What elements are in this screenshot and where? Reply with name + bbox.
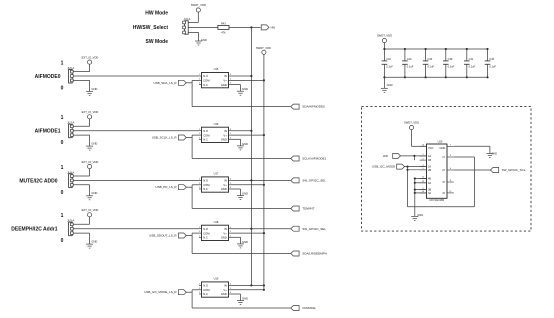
svg-text:SW_GP/I2C_SEL: SW_GP/I2C_SEL xyxy=(302,227,326,231)
svg-text:SW_GP/I2C_SCL: SW_GP/I2C_SCL xyxy=(502,168,526,172)
svg-text:GND: GND xyxy=(201,38,207,42)
svg-text:SWDT_VDD: SWDT_VDD xyxy=(191,3,206,7)
svg-text:4: 4 xyxy=(230,292,231,294)
svg-text:GND: GND xyxy=(221,236,227,240)
svg-text:14: 14 xyxy=(422,145,424,147)
svg-text:0: 0 xyxy=(61,190,64,196)
svg-text:TDM/INT: TDM/INT xyxy=(302,207,314,211)
svg-text:SCLK/AIFMODE1: SCLK/AIFMODE1 xyxy=(302,157,326,161)
svg-text:GND: GND xyxy=(91,240,97,244)
svg-text:C43: C43 xyxy=(407,57,412,61)
svg-text:USB_PD_LS_R: USB_PD_LS_R xyxy=(155,185,177,189)
svg-text:GND: GND xyxy=(221,187,227,191)
svg-text:N.O: N.O xyxy=(203,284,208,288)
svg-text:0.1uF: 0.1uF xyxy=(407,65,414,69)
svg-text:C40: C40 xyxy=(427,57,432,61)
svg-text:1: 1 xyxy=(61,61,64,67)
svg-text:V+: V+ xyxy=(223,231,227,235)
svg-text:SW_GP/I2C_SEL: SW_GP/I2C_SEL xyxy=(302,179,326,183)
svg-text:3: 3 xyxy=(199,288,200,290)
svg-text:R43: R43 xyxy=(221,21,226,25)
svg-text:V+: V+ xyxy=(223,288,227,292)
svg-text:4A: 4A xyxy=(428,182,431,185)
svg-text:COM: COM xyxy=(203,288,210,292)
svg-text:N.C: N.C xyxy=(203,138,208,142)
svg-text:11: 11 xyxy=(449,191,451,193)
svg-text:2: 2 xyxy=(199,74,200,76)
svg-text:USB_SDA_LS_R: USB_SDA_LS_R xyxy=(153,81,177,85)
svg-text:0.1uF: 0.1uF xyxy=(427,65,434,69)
svg-text:IN: IN xyxy=(224,284,227,288)
svg-text:GND: GND xyxy=(221,138,227,142)
svg-text:0.1uF: 0.1uF xyxy=(469,65,476,69)
svg-text:2B: 2B xyxy=(428,169,431,172)
svg-text:GND: GND xyxy=(242,240,248,244)
svg-text:0: 0 xyxy=(61,86,64,92)
svg-text:0.1uF: 0.1uF xyxy=(489,65,496,69)
svg-text:AIFMODE0: AIFMODE0 xyxy=(35,74,61,80)
svg-text:C39: C39 xyxy=(448,57,453,61)
svg-text:GND: GND xyxy=(221,83,227,87)
svg-text:SDA/AIFMODE0: SDA/AIFMODE0 xyxy=(302,105,325,109)
svg-text:C45: C45 xyxy=(489,57,494,61)
svg-text:V+: V+ xyxy=(223,79,227,83)
svg-text:3: 3 xyxy=(199,231,200,233)
svg-text:1: 1 xyxy=(61,165,64,171)
svg-text:3Y: 3Y xyxy=(442,181,445,184)
svg-text:V+: V+ xyxy=(223,183,227,187)
svg-text:HW: HW xyxy=(383,154,388,158)
svg-text:EXT_IO_VDD: EXT_IO_VDD xyxy=(82,110,99,114)
svg-text:GND: GND xyxy=(91,191,97,195)
svg-text:8: 8 xyxy=(450,180,451,182)
svg-text:6: 6 xyxy=(230,74,231,76)
svg-text:IN: IN xyxy=(224,74,227,78)
svg-text:2: 2 xyxy=(199,179,200,181)
svg-text:1: 1 xyxy=(199,187,200,189)
svg-text:N.O: N.O xyxy=(203,74,208,78)
svg-text:5: 5 xyxy=(230,231,231,233)
svg-text:N.C: N.C xyxy=(203,187,208,191)
svg-text:GND: GND xyxy=(492,152,498,155)
svg-text:4B: 4B xyxy=(428,178,431,181)
svg-text:1: 1 xyxy=(199,137,200,139)
svg-text:N.O: N.O xyxy=(203,179,208,183)
svg-text:1A: 1A xyxy=(428,155,431,158)
svg-text:CPMODE: CPMODE xyxy=(302,306,315,310)
svg-text:6: 6 xyxy=(230,179,231,181)
svg-text:6: 6 xyxy=(450,168,451,170)
svg-text:GND: GND xyxy=(91,142,97,146)
svg-text:COM: COM xyxy=(203,183,210,187)
svg-text:3: 3 xyxy=(199,133,200,135)
svg-text:2: 2 xyxy=(199,129,200,131)
svg-text:GND: GND xyxy=(242,142,248,146)
svg-text:USB_SCLK_LS_R: USB_SCLK_LS_R xyxy=(152,136,178,140)
svg-text:HW Mode: HW Mode xyxy=(145,11,168,17)
svg-text:0.1uF: 0.1uF xyxy=(448,65,455,69)
svg-text:5: 5 xyxy=(230,183,231,185)
svg-text:7: 7 xyxy=(450,145,451,147)
svg-text:GND: GND xyxy=(221,292,227,296)
svg-text:SWDT_VDD: SWDT_VDD xyxy=(256,46,271,50)
svg-text:U15: U15 xyxy=(214,67,219,71)
svg-text:GND: GND xyxy=(91,87,97,91)
svg-text:DEEMPH/I2C Addr1: DEEMPH/I2C Addr1 xyxy=(11,227,57,233)
svg-text:6: 6 xyxy=(230,284,231,286)
svg-text:COM: COM xyxy=(203,133,210,137)
svg-text:GND: GND xyxy=(387,83,393,87)
svg-text:SDA/LR/DEEMPH: SDA/LR/DEEMPH xyxy=(302,252,327,256)
svg-text:EXT_IO_VDD: EXT_IO_VDD xyxy=(82,55,99,59)
svg-text:U16: U16 xyxy=(214,122,219,126)
svg-text:MUTE/I2C ADD0: MUTE/I2C ADD0 xyxy=(19,178,57,184)
svg-text:U17: U17 xyxy=(214,172,219,176)
svg-text:3A: 3A xyxy=(428,192,431,195)
svg-text:U20: U20 xyxy=(438,139,443,143)
svg-text:C41: C41 xyxy=(469,57,474,61)
svg-text:V+: V+ xyxy=(223,133,227,137)
svg-text:GND: GND xyxy=(242,87,248,91)
svg-text:3: 3 xyxy=(199,183,200,185)
svg-text:EXT_IO_VDD: EXT_IO_VDD xyxy=(82,160,99,164)
svg-text:IN: IN xyxy=(224,129,227,133)
svg-text:1: 1 xyxy=(61,213,64,219)
svg-text:1B: 1B xyxy=(428,159,431,162)
svg-text:COM: COM xyxy=(203,231,210,235)
svg-text:6: 6 xyxy=(230,129,231,131)
svg-text:5: 5 xyxy=(230,133,231,135)
svg-text:4: 4 xyxy=(230,137,231,139)
svg-text:U19: U19 xyxy=(214,277,219,281)
svg-text:1Y: 1Y xyxy=(442,156,445,159)
svg-text:GND: GND xyxy=(417,213,423,217)
svg-text:VCC: VCC xyxy=(428,146,434,150)
svg-text:2: 2 xyxy=(422,158,423,160)
svg-text:1: 1 xyxy=(61,115,64,121)
svg-text:GND: GND xyxy=(242,297,248,301)
svg-text:N.O: N.O xyxy=(203,129,208,133)
svg-text:1: 1 xyxy=(199,83,200,85)
svg-text:N.C: N.C xyxy=(203,236,208,240)
svg-text:3: 3 xyxy=(450,155,451,157)
svg-text:3: 3 xyxy=(199,79,200,81)
svg-text:0: 0 xyxy=(61,140,64,146)
svg-text:HW/SW_Select: HW/SW_Select xyxy=(133,25,169,31)
svg-text:5: 5 xyxy=(230,288,231,290)
svg-text:AIFMODE1: AIFMODE1 xyxy=(35,129,61,135)
svg-text:COM: COM xyxy=(203,79,210,83)
svg-text:4: 4 xyxy=(230,235,231,237)
svg-text:SW Mode: SW Mode xyxy=(146,39,169,45)
svg-text:4Y: 4Y xyxy=(442,192,445,195)
svg-text:N.O: N.O xyxy=(203,227,208,231)
svg-text:U18: U18 xyxy=(214,220,219,224)
svg-text:EXT_IO_VDD: EXT_IO_VDD xyxy=(82,208,99,212)
svg-text:0.1uF: 0.1uF xyxy=(386,65,393,69)
svg-text:1: 1 xyxy=(199,235,200,237)
svg-text:USB_I2C_MODE: USB_I2C_MODE xyxy=(372,165,395,169)
svg-text:6: 6 xyxy=(230,227,231,229)
svg-text:SWDT_VDD: SWDT_VDD xyxy=(377,34,392,38)
svg-text:HW: HW xyxy=(271,25,276,29)
svg-text:4: 4 xyxy=(230,83,231,85)
svg-text:2: 2 xyxy=(199,284,200,286)
svg-text:CD74AC08M: CD74AC08M xyxy=(429,199,444,202)
svg-text:IN: IN xyxy=(224,227,227,231)
svg-text:GND: GND xyxy=(440,146,446,150)
svg-text:2Y: 2Y xyxy=(442,169,445,172)
svg-text:USB_I2C_MODE_LS_R: USB_I2C_MODE_LS_R xyxy=(144,290,177,294)
svg-text:1: 1 xyxy=(199,292,200,294)
svg-text:4: 4 xyxy=(230,187,231,189)
svg-text:0: 0 xyxy=(61,238,64,244)
svg-text:IN: IN xyxy=(224,179,227,183)
svg-text:5: 5 xyxy=(230,79,231,81)
svg-text:47k: 47k xyxy=(221,30,226,34)
svg-text:GND: GND xyxy=(242,192,248,196)
svg-text:N.C: N.C xyxy=(203,292,208,296)
svg-text:N.C: N.C xyxy=(203,83,208,87)
svg-text:2: 2 xyxy=(199,227,200,229)
svg-text:C42: C42 xyxy=(386,57,391,61)
svg-text:USB_SDOUT_LS_R: USB_SDOUT_LS_R xyxy=(149,234,177,238)
svg-text:SWDT_VDD: SWDT_VDD xyxy=(404,120,419,124)
